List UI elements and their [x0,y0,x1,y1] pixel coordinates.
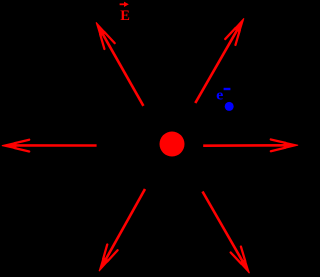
electron dot [225,102,234,111]
E field label: vector arrow [120,2,129,7]
electron label superscript minus [224,88,231,90]
field arrow upper-right [195,15,249,103]
svg-text:E: E [120,8,130,24]
field arrow left [2,140,97,152]
svg-text:e: e [216,88,224,104]
field arrow lower-right [203,192,255,277]
positive charge dot (center) [160,132,185,157]
field arrow upper-left [91,19,143,106]
field arrow right [203,139,298,151]
field arrow lower-left [94,189,145,274]
